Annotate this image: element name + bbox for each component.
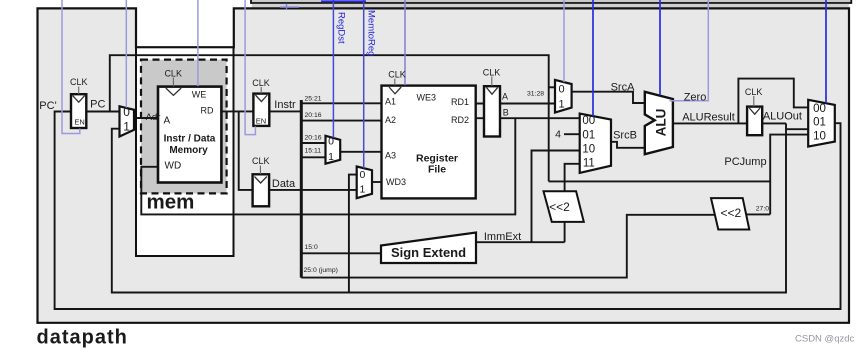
svg-text:ALUOut: ALUOut — [763, 111, 802, 123]
svg-text:datapath: datapath — [37, 327, 128, 349]
wire 25:0 (jump) from Instr bus to shifter2 — [301, 215, 715, 278]
svg-text:Data: Data — [272, 178, 296, 190]
wire SrcA mux output to ALU — [572, 92, 645, 103]
register file — [382, 86, 476, 199]
svg-text:WE: WE — [192, 90, 207, 100]
wire Instr 15:11 to RegDst mux input 1 — [301, 156, 325, 158]
wire ALUResult bypass over register to PCSrc mux input 00 — [738, 79, 808, 124]
clk stem register file — [394, 79, 396, 86]
svg-text:RD1: RD1 — [451, 97, 469, 107]
clk stem ALUOut — [753, 96, 755, 106]
svg-text:WE3: WE3 — [417, 93, 437, 103]
svg-text:25:21: 25:21 — [305, 96, 322, 103]
svg-text:0: 0 — [123, 105, 130, 119]
controller box (cropped at top) — [251, 0, 851, 3]
wire stub PC into SrcA mux input 0 — [549, 86, 555, 88]
controller internal wire stub 1 — [321, 0, 366, 2]
wire WD3 mux output to RF WD3 — [372, 181, 382, 183]
memory block Instr/Data Memory — [158, 87, 221, 183]
register Data — [253, 174, 270, 206]
svg-text:27:0: 27:0 — [756, 206, 769, 213]
svg-text:B: B — [503, 108, 509, 118]
wire RD2 through B register to SrcB mux input 00 — [476, 117, 580, 119]
svg-text:PC: PC — [90, 99, 105, 111]
clk stem memory — [172, 78, 174, 87]
svg-text:01: 01 — [813, 117, 826, 129]
register A/B — [484, 86, 500, 136]
wire ImmExt up to SrcB mux input 10 — [532, 151, 580, 243]
wire Adr mux output to memory A — [134, 117, 158, 119]
wire ImmExt from Sign Extend — [476, 241, 565, 243]
mux SrcB 00/01/10/11 — [580, 114, 611, 173]
wire Instr register output to bus — [269, 110, 302, 112]
svg-text:A: A — [164, 116, 171, 127]
wire RD1 through A register to SrcA mux input 1 — [476, 103, 555, 105]
wire shifter1 input from ImmExt — [564, 222, 566, 242]
svg-text:Zero: Zero — [684, 92, 707, 104]
svg-text:0: 0 — [359, 169, 365, 181]
register PC — [71, 94, 86, 128]
svg-text:01: 01 — [582, 129, 595, 141]
svg-text:0: 0 — [328, 136, 334, 148]
clock wedge memory — [166, 88, 181, 95]
clock wedge Data — [255, 177, 267, 184]
svg-text:ImmExt: ImmExt — [484, 231, 521, 243]
shifter <<2 (ImmExt) — [544, 191, 584, 222]
wire RegDst mux output to RF A3 — [340, 151, 381, 153]
clk stem Instr — [260, 87, 262, 93]
control AdrSrc (to Adr mux select) — [125, 0, 127, 108]
svg-text:A1: A1 — [385, 97, 396, 107]
wire ALUOut feedback loop around bottom to Adr mux input 1 — [112, 123, 786, 292]
Instr bus vertical — [300, 100, 303, 278]
svg-text:00: 00 — [813, 103, 826, 115]
wire constant 4 stub into SrcB mux input 01 — [564, 133, 580, 135]
wire B branch down around to memory WD — [141, 118, 515, 214]
mem dashed box — [141, 60, 227, 194]
wire ALUOut loop branch up to WD3 mux input 0 — [349, 175, 357, 293]
svg-text:1: 1 — [558, 99, 564, 111]
svg-text:A3: A3 — [385, 151, 396, 161]
svg-text:Register: Register — [416, 152, 458, 164]
wire SrcB mux output to ALU — [611, 142, 645, 148]
control ALUControl (to ALU) — [659, 0, 661, 95]
wire memory RD to Instr register — [221, 110, 253, 112]
svg-text:CLK: CLK — [164, 69, 182, 79]
register ALUOut — [747, 107, 762, 136]
svg-text:mem: mem — [147, 190, 195, 213]
svg-text:EN: EN — [74, 118, 84, 127]
svg-text:EN: EN — [256, 117, 266, 126]
controller internal wire stub 2 — [280, 6, 299, 8]
svg-text:CLK: CLK — [745, 87, 763, 97]
register Instr — [253, 94, 269, 126]
wire PC' feedback loop (PCSrc mux output around bottom to PC input) — [55, 112, 841, 310]
mux AdrSrc 0/1 — [120, 106, 135, 136]
mux SrcA 0/1 — [555, 80, 572, 113]
svg-text:<<2: <<2 — [720, 206, 741, 220]
wire Instr 20:16 to RF A2 — [301, 120, 381, 122]
svg-text:WD3: WD3 — [386, 177, 406, 187]
svg-text:CLK: CLK — [388, 70, 406, 80]
svg-text:RD2: RD2 — [451, 115, 469, 125]
svg-text:0: 0 — [558, 84, 564, 96]
shifter <<2 (jump) — [711, 198, 749, 229]
svg-text:CLK: CLK — [70, 77, 88, 87]
svg-text:RD: RD — [201, 106, 214, 116]
wire ALUOut to PCSrc mux input 01 — [786, 128, 808, 130]
control RegDst (to RegDst mux select) — [332, 0, 334, 138]
clk stem A/B — [491, 77, 493, 87]
clk stem Data — [259, 166, 261, 175]
mux MemtoReg WD3 0/1 — [357, 167, 372, 199]
svg-text:4: 4 — [555, 129, 561, 141]
control ALUSrcA (to SrcA mux select) — [563, 0, 565, 82]
sign extend box — [381, 233, 476, 264]
wire Instr 15:0 to Sign Extend — [301, 252, 381, 254]
svg-text:25:0 (jump): 25:0 (jump) — [304, 267, 338, 274]
control PCSrc (to PCSrc mux select) — [825, 0, 827, 103]
svg-text:File: File — [428, 164, 446, 176]
ALU — [645, 92, 673, 154]
svg-text:WD: WD — [165, 161, 182, 172]
clock wedge A/B — [486, 87, 497, 94]
svg-text:ALU: ALU — [654, 109, 669, 137]
clock wedge register file — [389, 87, 401, 94]
mux RegDst 0/1 — [326, 136, 341, 164]
clock wedge Instr — [255, 95, 267, 102]
svg-text:PC': PC' — [39, 100, 56, 112]
clk stem PC — [78, 87, 80, 95]
gap strip under controller — [252, 4, 849, 9]
svg-text:CLK: CLK — [252, 78, 270, 88]
svg-text:1: 1 — [123, 120, 130, 134]
control ALUSrcB (to SrcB mux select) — [592, 0, 594, 116]
svg-text:Memory: Memory — [169, 145, 208, 156]
wire PCJump to PCSrc mux input 10 — [549, 180, 771, 182]
svg-text:1: 1 — [359, 184, 365, 196]
control RegWrite WE3 (to register file) — [404, 0, 406, 85]
svg-text:Instr / Data: Instr / Data — [164, 134, 216, 145]
svg-text:SrcA: SrcA — [611, 82, 636, 94]
wire PC branch up and across top to SrcA / 31:28 tap down to PCJump — [110, 55, 549, 181]
wire Instr 20:16 to RegDst mux input 0 — [301, 142, 325, 144]
control MemtoReg (to WD3 mux select) — [363, 0, 365, 168]
controller internal wire stub 3 — [286, 4, 288, 10]
svg-text:15:11: 15:11 — [305, 148, 322, 155]
svg-text:MemtoReg: MemtoReg — [366, 10, 377, 56]
wire Instr 25:21 to RF A1 — [301, 102, 381, 104]
svg-text:CSDN @qzdc: CSDN @qzdc — [795, 334, 855, 345]
svg-text:Instr: Instr — [274, 99, 296, 111]
svg-text:10: 10 — [582, 143, 595, 155]
wire jump concat up to PCSrc mux input 10 — [770, 135, 808, 215]
control PCEn (to PC register EN) — [62, 0, 80, 134]
clock wedge PC — [73, 96, 85, 103]
control MemWrite WE (to memory) — [197, 0, 199, 86]
wire RD branch down to Data register and through to WD3 mux input 1 — [239, 111, 357, 189]
svg-text:Adr: Adr — [146, 112, 161, 123]
svg-text:CLK: CLK — [483, 68, 501, 78]
wire shifter1 output to SrcB mux input 11 — [565, 164, 580, 192]
svg-text:1: 1 — [328, 151, 334, 163]
wire PC register output to Adr mux input 0 — [86, 111, 118, 113]
svg-text:00: 00 — [582, 115, 595, 127]
svg-text:<<2: <<2 — [549, 200, 570, 214]
svg-text:Sign Extend: Sign Extend — [391, 245, 466, 260]
svg-text:A: A — [502, 92, 508, 102]
svg-text:CLK: CLK — [252, 156, 270, 166]
svg-text:RegDst: RegDst — [336, 12, 347, 44]
svg-text:PCJump: PCJump — [724, 156, 766, 168]
wire shifter2 output up to PCJump — [746, 213, 770, 215]
wire ALUResult through ALUOut register — [673, 122, 786, 124]
svg-text:20:16: 20:16 — [305, 112, 322, 119]
signal Zero (from ALU up to controller) — [670, 0, 709, 101]
svg-text:10: 10 — [813, 130, 826, 142]
mux PCSrc 00/01/10 — [808, 100, 835, 147]
svg-text:31:28: 31:28 — [527, 90, 544, 97]
control IRWrite (to Instr register EN) — [245, 0, 255, 135]
clock wedge ALUOut — [749, 108, 760, 114]
svg-text:20:16: 20:16 — [305, 134, 322, 141]
svg-text:ALUResult: ALUResult — [682, 112, 735, 124]
mem module box — [136, 47, 234, 256]
svg-text:A2: A2 — [385, 115, 396, 125]
svg-text:SrcB: SrcB — [613, 130, 637, 142]
svg-text:11: 11 — [583, 158, 595, 170]
svg-text:15:0: 15:0 — [305, 244, 318, 251]
